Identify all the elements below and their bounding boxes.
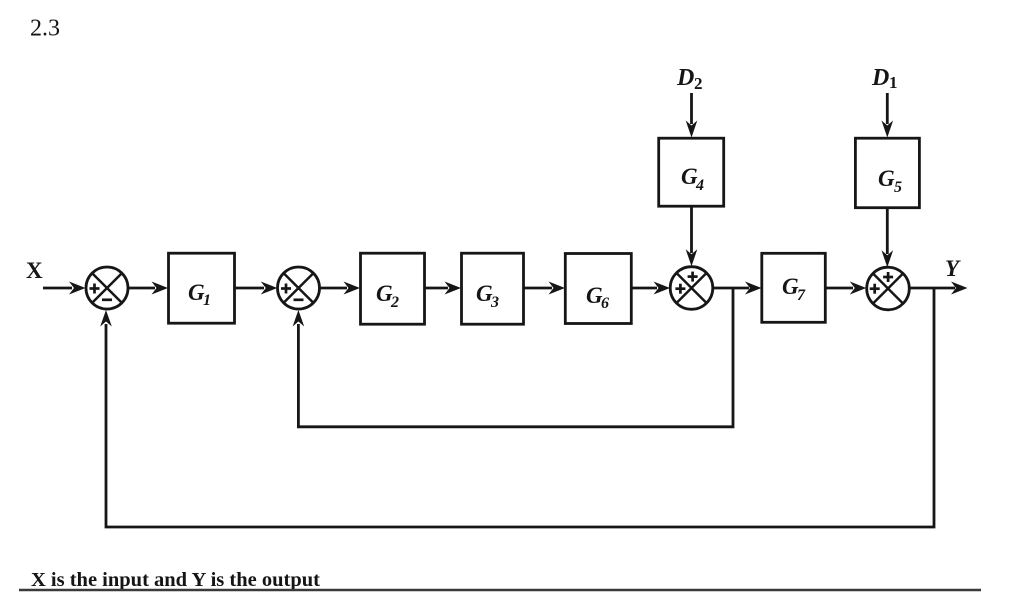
svg-text:D: D <box>871 65 889 91</box>
svg-text:X is the input and Y is the ou: X is the input and Y is the output <box>31 569 320 591</box>
wire G4 to S3 <box>686 206 698 266</box>
block G6 <box>565 254 631 324</box>
wire S4 to Y output <box>909 282 967 295</box>
block G7 <box>762 253 826 322</box>
wire outer feedback from Y tap to S1 <box>100 288 934 527</box>
wire X input to S1 <box>43 282 86 295</box>
wire G1 to S2 <box>235 282 278 295</box>
wire G5 to S4 <box>882 208 894 268</box>
wire G2 to G3 <box>425 282 462 295</box>
wire G7 to S4 <box>825 282 866 295</box>
wire S2 to G2 <box>320 282 361 295</box>
svg-text:X: X <box>26 258 43 283</box>
svg-text:3: 3 <box>490 294 499 311</box>
svg-text:1: 1 <box>889 73 898 92</box>
svg-text:G: G <box>878 166 895 191</box>
svg-text:1: 1 <box>203 292 211 309</box>
node D1 label <box>871 65 898 92</box>
node D2 label <box>676 65 703 93</box>
wire G6 to S3 <box>632 282 671 295</box>
wire inner feedback from tap to S2 <box>293 288 733 427</box>
svg-text:6: 6 <box>601 295 609 312</box>
svg-text:Y: Y <box>945 256 961 281</box>
svg-text:5: 5 <box>894 179 902 196</box>
block G5 <box>855 138 919 208</box>
summing junction S2 <box>278 267 320 309</box>
svg-text:2: 2 <box>694 74 703 93</box>
caption underline <box>19 589 981 591</box>
svg-text:7: 7 <box>797 287 806 304</box>
block G4 <box>659 138 724 206</box>
wire D2 to G4 <box>686 93 698 138</box>
wire G3 to G6 <box>524 282 566 295</box>
wire S3 to G7 (with tap at 733) <box>713 282 762 295</box>
svg-text:2: 2 <box>390 294 399 311</box>
summing junction S3 <box>670 267 713 310</box>
summing junction S1 <box>86 267 128 309</box>
block G1 <box>169 253 235 323</box>
wire S1 to G1 <box>128 282 168 295</box>
svg-text:4: 4 <box>695 177 704 194</box>
summing junction S4 <box>867 267 910 310</box>
block G3 <box>462 253 524 324</box>
svg-text:D: D <box>676 65 694 91</box>
block G2 <box>361 253 425 324</box>
svg-text:2.3: 2.3 <box>30 16 60 42</box>
wire D1 to G5 <box>882 93 894 138</box>
